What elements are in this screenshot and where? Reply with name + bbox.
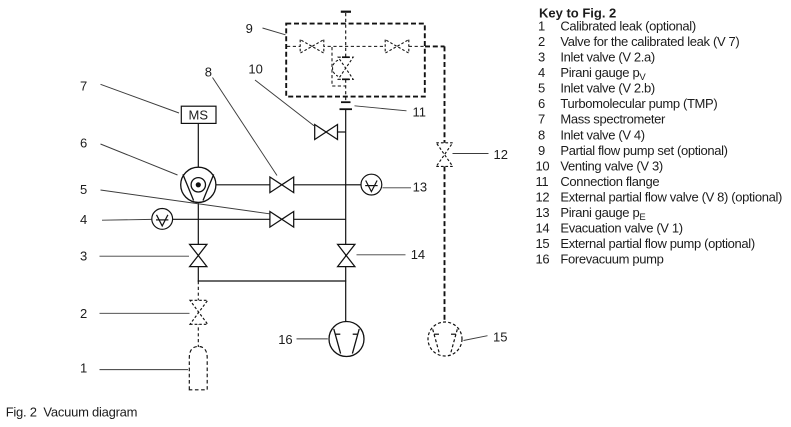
internal vertical valve (dashed) of pump set bbox=[338, 57, 353, 79]
svg-text:Fig. 2 Vacuum diagram: Fig. 2 Vacuum diagram bbox=[6, 404, 138, 419]
svg-text:Evacuation valve (V 1): Evacuation valve (V 1) bbox=[560, 220, 682, 235]
svg-text:MS: MS bbox=[189, 108, 209, 123]
wire: main line to gauge 13 bbox=[346, 184, 361, 186]
wire: main vertical line flange to pump 16 bbox=[345, 110, 347, 322]
inlet valve 3 (V 2.a) bbox=[190, 244, 207, 266]
leader line 12 bbox=[453, 153, 489, 155]
svg-text:Venting valve (V 3): Venting valve (V 3) bbox=[560, 158, 662, 173]
svg-text:5: 5 bbox=[80, 182, 87, 197]
internal pump circle (dashed) bbox=[333, 60, 338, 76]
leader line 13 bbox=[383, 187, 412, 189]
inlet valve 5 (V 2.b) bbox=[270, 212, 294, 228]
svg-text:Turbomolecular pump (TMP): Turbomolecular pump (TMP) bbox=[560, 96, 717, 111]
svg-text:Connection flange: Connection flange bbox=[560, 174, 659, 189]
turbomolecular pump TMP (6) bbox=[181, 167, 216, 202]
wire dashed: cross line to calibrated leak bbox=[197, 281, 199, 347]
svg-text:14: 14 bbox=[411, 247, 425, 262]
leader line 15 bbox=[464, 336, 488, 341]
leader line 14 bbox=[357, 254, 406, 256]
leader line 3 bbox=[100, 255, 190, 257]
inlet valve 8 (V 4) bbox=[270, 177, 294, 193]
svg-text:6: 6 bbox=[538, 96, 545, 111]
wire: venting valve stub bbox=[337, 131, 346, 133]
calibrated leak 1 (dashed bottle) bbox=[189, 346, 207, 389]
svg-text:16: 16 bbox=[536, 252, 550, 267]
leader line 5 bbox=[101, 190, 270, 214]
leader line 6 bbox=[101, 144, 178, 175]
connection flange 11 bbox=[341, 101, 351, 103]
leader line 16 bbox=[297, 338, 328, 340]
svg-text:External partial flow pump (op: External partial flow pump (optional) bbox=[560, 236, 754, 251]
svg-text:1: 1 bbox=[538, 19, 545, 34]
svg-text:3: 3 bbox=[80, 249, 87, 264]
svg-text:15: 15 bbox=[536, 236, 550, 251]
svg-text:6: 6 bbox=[80, 136, 87, 151]
leader line 2 bbox=[100, 312, 190, 314]
venting valve 10 (V 3) bbox=[315, 125, 338, 140]
svg-text:3: 3 bbox=[538, 50, 545, 65]
wire: bottom cross line bbox=[198, 280, 347, 282]
svg-text:2: 2 bbox=[538, 34, 545, 49]
forevacuum pump 16 bbox=[329, 322, 364, 357]
svg-text:10: 10 bbox=[248, 62, 262, 77]
external partial flow pump 15 (dashed) bbox=[428, 322, 462, 356]
leader line 8 bbox=[213, 78, 278, 176]
svg-text:2: 2 bbox=[80, 306, 87, 321]
svg-text:10: 10 bbox=[536, 158, 550, 173]
svg-text:Inlet valve (V 4): Inlet valve (V 4) bbox=[560, 127, 644, 142]
Pirani gauge 4 bbox=[152, 209, 173, 230]
svg-text:8: 8 bbox=[538, 127, 545, 142]
svg-text:11: 11 bbox=[413, 104, 427, 119]
leader line 1 bbox=[100, 369, 189, 371]
leader line 11 bbox=[355, 106, 407, 111]
svg-text:8: 8 bbox=[205, 65, 212, 80]
wire: valve 3 to cross line bbox=[197, 266, 199, 282]
key items bbox=[536, 19, 783, 267]
svg-text:Inlet valve (V 2.b): Inlet valve (V 2.b) bbox=[560, 81, 655, 96]
wire: MS to TMP bbox=[197, 123, 199, 168]
svg-text:Inlet valve (V 2.a): Inlet valve (V 2.a) bbox=[560, 50, 655, 65]
svg-text:Valve for the calibrated leak: Valve for the calibrated leak (V 7) bbox=[560, 34, 739, 49]
svg-text:16: 16 bbox=[278, 332, 292, 347]
svg-text:11: 11 bbox=[536, 174, 549, 189]
svg-text:4: 4 bbox=[80, 212, 87, 227]
wire: TMP to inlet valve V2.a bbox=[197, 202, 199, 245]
svg-text:14: 14 bbox=[536, 220, 550, 235]
svg-text:13: 13 bbox=[536, 205, 550, 220]
mass spectrometer box MS (7) bbox=[181, 106, 216, 123]
svg-text:12: 12 bbox=[494, 147, 508, 162]
svg-text:1: 1 bbox=[80, 361, 87, 376]
svg-text:5: 5 bbox=[538, 81, 545, 96]
svg-text:Calibrated leak (optional): Calibrated leak (optional) bbox=[560, 19, 695, 34]
valve 2 for calibrated leak (V 7, dashed) bbox=[190, 300, 208, 324]
svg-text:7: 7 bbox=[80, 79, 87, 94]
leader line 10 bbox=[255, 80, 314, 126]
svg-text:9: 9 bbox=[246, 21, 253, 36]
svg-text:Partial flow pump set (optiona: Partial flow pump set (optional) bbox=[560, 143, 727, 158]
svg-text:13: 13 bbox=[413, 180, 427, 195]
partial flow pump set box 9 (heavy dashed) bbox=[286, 24, 425, 97]
wire dashed: internal horizontal line bbox=[287, 45, 424, 47]
valve (dashed) left in box 9 bbox=[300, 40, 324, 54]
Pirani gauge 13 bbox=[361, 174, 382, 195]
svg-text:External partial flow valve (V: External partial flow valve (V 8) (optio… bbox=[560, 189, 782, 204]
svg-text:9: 9 bbox=[538, 143, 545, 158]
leader line 7 bbox=[101, 84, 180, 113]
wire heavy dashed: box to external branch bbox=[425, 45, 445, 47]
svg-text:Mass spectrometer: Mass spectrometer bbox=[560, 112, 666, 127]
wire: TMP to main line (row through valve 8) bbox=[216, 184, 346, 186]
wire dashed: top cap into box down to internal pump bbox=[345, 13, 347, 58]
valve (dashed) right in box 9 bbox=[385, 40, 409, 54]
svg-text:12: 12 bbox=[536, 189, 550, 204]
wire dashed: internal pump down to flange bbox=[345, 80, 347, 102]
svg-text:4: 4 bbox=[538, 65, 545, 80]
svg-text:7: 7 bbox=[538, 112, 545, 127]
external partial flow valve 12 (V 8, dashed) bbox=[436, 143, 452, 167]
svg-text:15: 15 bbox=[493, 330, 507, 345]
wire heavy dashed: external branch down to valve 12 bbox=[444, 46, 446, 143]
evacuation valve 14 (V 1) bbox=[338, 244, 355, 266]
internal pump bracket (dashed) bbox=[332, 47, 346, 86]
leader line 9 bbox=[263, 28, 286, 35]
wire heavy dashed: valve 12 down to pump 15 bbox=[444, 167, 446, 323]
wire: gauge 4 row through valve 5 bbox=[173, 218, 346, 220]
svg-text:Forevacuum pump: Forevacuum pump bbox=[560, 252, 663, 267]
node: top cap above partial flow box bbox=[341, 11, 351, 13]
leader line 4 bbox=[102, 218, 152, 221]
